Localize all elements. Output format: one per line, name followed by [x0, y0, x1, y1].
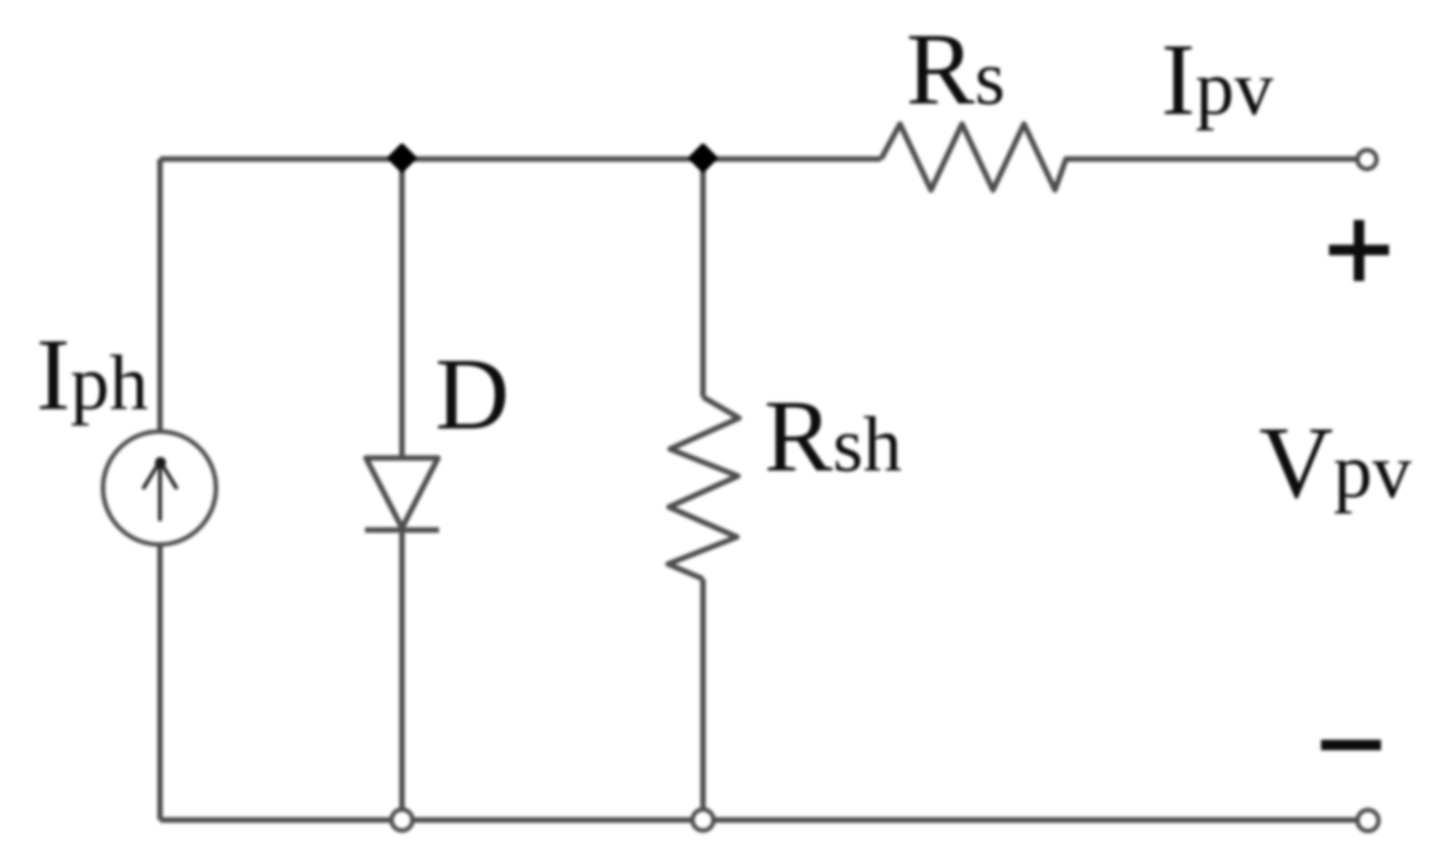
- svg-text:Rsh: Rsh: [764, 380, 902, 494]
- svg-text:Ipv: Ipv: [1161, 23, 1273, 137]
- svg-text:D: D: [435, 338, 509, 452]
- svg-text:Iph: Iph: [36, 318, 148, 432]
- svg-text:Rs: Rs: [906, 13, 1005, 127]
- svg-text:Vpv: Vpv: [1259, 406, 1411, 520]
